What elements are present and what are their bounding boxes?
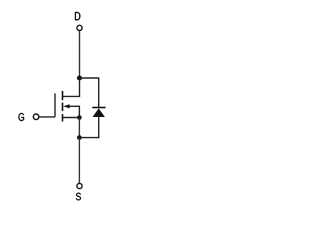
node source junction dot — [77, 115, 82, 120]
MOSFET Q1 channel segment (drain, top) — [62, 91, 64, 100]
MOSFET Q1 body arrow (points to channel) — [63, 104, 69, 108]
MOSFET Q1 channel segment (body, middle) — [62, 103, 64, 112]
MOSFET Q1 gate electrode — [54, 93, 56, 117]
wire body arrow stub to source junction — [69, 106, 79, 117]
terminal G (circle) — [33, 114, 39, 120]
wire top junction to diode cathode branch — [80, 78, 99, 107]
terminal D (circle) — [77, 25, 82, 30]
wire gate lead (G terminal to gate electrode) — [39, 116, 55, 118]
wire source vertical (bottom junction to S terminal) — [78, 138, 80, 184]
label G — [19, 113, 25, 121]
terminal S (circle) — [77, 183, 82, 188]
label S — [76, 193, 81, 201]
wire bottom junction to diode anode branch — [79, 117, 98, 138]
node top junction dot — [77, 75, 82, 80]
wire source stub — [62, 117, 79, 119]
wire top junction down and left to MOSFET drain stub — [62, 78, 79, 96]
node bottom junction dot — [77, 135, 82, 140]
MOSFET Q1 channel segment (source, bottom) — [62, 114, 64, 121]
label D — [75, 12, 80, 20]
wire source junction to bottom junction — [78, 118, 80, 138]
diode D1 body-diode triangle (anode, pointing up) — [93, 108, 105, 117]
wire drain vertical (D terminal to top junction) — [79, 31, 81, 78]
diode D1 cathode bar — [92, 107, 105, 109]
